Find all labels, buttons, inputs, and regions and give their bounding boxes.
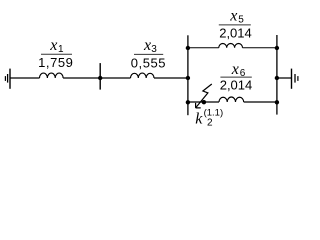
- label x3 designator: [143, 37, 157, 55]
- svg-text:x: x: [229, 8, 237, 25]
- junction dot top-right: [275, 46, 279, 50]
- junction dot bottom-left: [186, 100, 190, 104]
- svg-text:3: 3: [151, 44, 157, 55]
- fraction bar x6: [220, 76, 251, 78]
- wire bottom branch right: [244, 101, 277, 103]
- node A stub: [99, 63, 101, 90]
- label x5 designator: [229, 8, 244, 26]
- wire left rail (node 1): [187, 35, 189, 115]
- svg-text:2,014: 2,014: [219, 25, 252, 40]
- wire input to L1: [10, 77, 40, 79]
- wire L3 to left rail: [154, 77, 188, 79]
- label k2 (1.1): [195, 108, 223, 129]
- svg-text:2,014: 2,014: [220, 77, 253, 92]
- coupling arrow k2: [196, 84, 212, 108]
- fraction bar x1: [41, 53, 72, 55]
- junction dot node A: [98, 76, 102, 80]
- svg-text:5: 5: [238, 15, 244, 26]
- fraction bar x3: [134, 53, 163, 55]
- svg-text:k: k: [195, 111, 203, 128]
- junction dot top-left: [186, 46, 190, 50]
- svg-text:x: x: [231, 61, 239, 78]
- junction dot mid-right: [275, 76, 279, 80]
- ground left (input port ground): [5, 69, 10, 89]
- junction dot bottom-right: [275, 100, 279, 104]
- wire top branch left: [188, 47, 219, 49]
- svg-text:1,759: 1,759: [38, 55, 73, 70]
- junction dot mid-left: [186, 76, 190, 80]
- inductor x3: [131, 73, 155, 78]
- inductor x1: [40, 73, 64, 78]
- svg-text:0,555: 0,555: [131, 56, 166, 71]
- wire top branch right: [243, 47, 277, 49]
- label x1 designator: [49, 37, 64, 55]
- svg-text:x: x: [143, 37, 151, 54]
- svg-text:1: 1: [58, 44, 64, 55]
- inductor x6: [219, 97, 244, 102]
- ground right (output port ground): [292, 69, 298, 89]
- fraction bar x5: [219, 24, 251, 26]
- wire right rail (node 2): [276, 35, 278, 115]
- junction dot coupling node: [202, 100, 206, 104]
- wire right rail to ground: [277, 77, 291, 79]
- label x6 designator: [231, 61, 246, 79]
- svg-text:2: 2: [207, 118, 213, 129]
- wire bottom branch left: [188, 101, 219, 103]
- svg-text:x: x: [49, 37, 57, 54]
- inductor x5: [219, 43, 243, 47]
- wire L1 to node A: [63, 77, 130, 79]
